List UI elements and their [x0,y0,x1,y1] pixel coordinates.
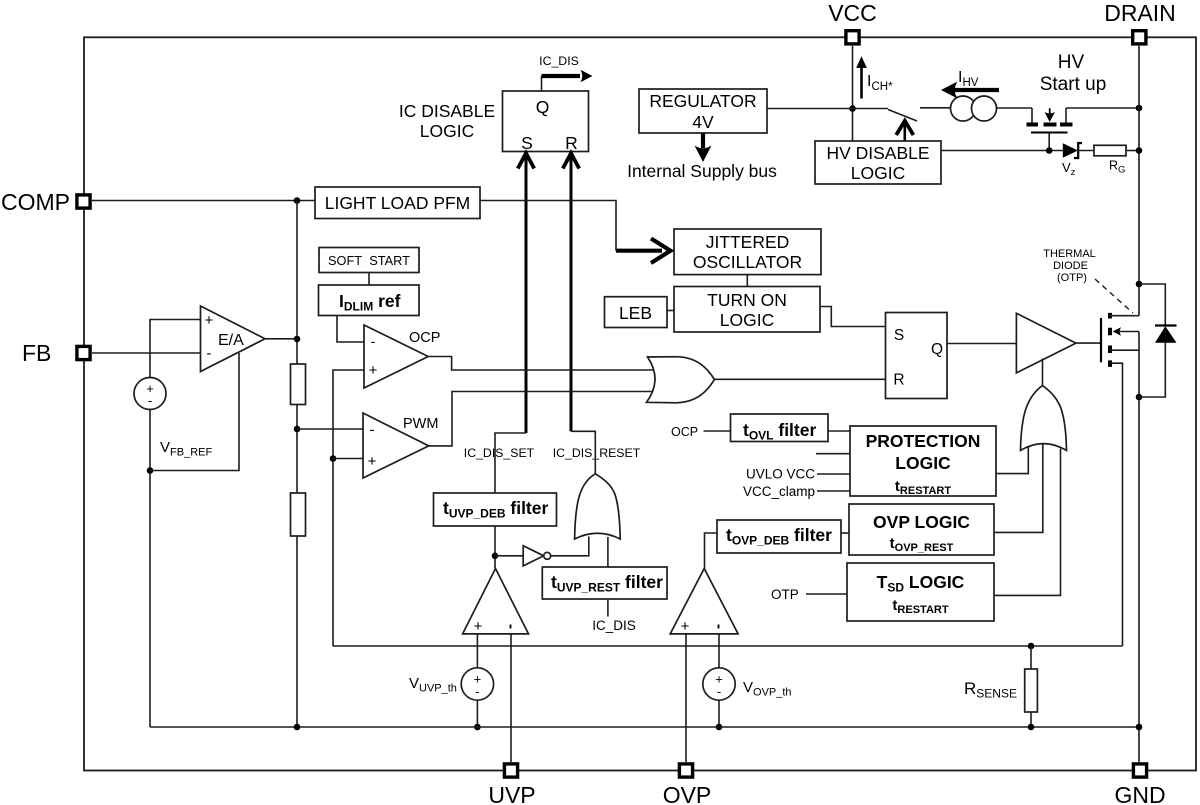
label HV Start up [1040,52,1107,95]
wire reset OR output [571,431,595,474]
svg-text:IC_DIS: IC_DIS [592,618,636,633]
wire OVP pin to comparator [685,634,687,762]
pin UVP [488,764,535,805]
block tUVP_REST filter [542,567,667,599]
arrow IC_DIS_SET (thick) [464,153,535,460]
svg-text:DIODE: DIODE [1053,260,1088,272]
node thermal diode top junction [1136,281,1143,288]
svg-text:IC DISABLE: IC DISABLE [399,101,495,121]
wire HV fet drain to DRAIN line [1066,107,1139,109]
svg-text:OVP: OVP [663,782,712,805]
svg-text:E/A: E/A [218,332,244,349]
wire regulator output to VCC node [767,108,853,110]
svg-text:OCP: OCP [409,330,440,346]
block SOFT START [319,248,419,273]
node PWM tap [294,426,301,433]
block OVP LOGIC [849,504,994,555]
block LEB [605,297,668,328]
driver buffer triangle [1016,313,1076,373]
svg-text:IC_DIS: IC_DIS [539,54,579,68]
block TURN ON LOGIC [674,287,820,333]
pin FB [22,340,90,366]
wire turn on logic to latch S [820,307,886,327]
svg-text:+: + [368,453,377,470]
svg-text:-: - [475,684,479,699]
wire OVP logic to OR [994,444,1043,532]
svg-text:DRAIN: DRAIN [1104,0,1176,26]
svg-text:S: S [521,133,533,153]
wire Q to IC_DIS arrow [539,54,592,91]
svg-text:+: + [369,362,378,379]
svg-text:Q: Q [536,97,550,117]
svg-text:LIGHT LOAD PFM: LIGHT LOAD PFM [325,193,471,213]
wire feedback loop to FB line [150,353,239,471]
svg-text:COMP: COMP [1,189,70,215]
wire HV disable logic to gate line [941,150,1064,152]
source VUVP_th [409,634,494,727]
wire ground rail [150,726,1139,728]
svg-text:S: S [894,327,904,344]
svg-text:-: - [717,684,721,699]
switch HV disable [853,108,951,121]
comparator UVP [463,569,529,636]
node feedback tap [147,467,154,474]
resistor divider upper [291,364,306,405]
wire PFM to oscillator [480,201,616,251]
node PWM noninverting tap [330,455,337,462]
wire TSD logic to OR [994,449,1061,596]
comparator OCP [364,325,440,388]
pin DRAIN [1104,0,1176,44]
comparator OVP [670,569,738,636]
node inverter tap [492,553,499,560]
wire E/A noninverting loop [150,320,201,379]
svg-text:UVP: UVP [488,782,535,805]
wire PWM output to OR [429,392,656,446]
source VFB_REF [134,378,212,459]
svg-text:LOGIC: LOGIC [720,310,774,330]
label OCP input [671,425,731,439]
wire divider vertical [296,201,298,365]
svg-text:-: - [370,422,375,439]
node mosfet source-body junction [1136,394,1143,401]
svg-text:OVP LOGIC: OVP LOGIC [873,512,970,532]
wire OCP noninverting to sense [333,370,364,646]
source VOVP_th [703,634,792,727]
pin VCC [828,0,877,44]
gate OR reset (up) [575,474,621,539]
node drain-hv junction [1136,105,1143,112]
arrow HV disable control [896,121,913,141]
svg-text:Q: Q [931,341,943,358]
svg-text:PROTECTION: PROTECTION [866,431,981,451]
wire tUVP_DEB to IC_DIS_SET [495,433,526,493]
node COMP divider tap [294,197,301,204]
wire idlim ref to OCP inverting [337,316,364,343]
label UVLO VCC input [746,467,850,482]
block TSD LOGIC [847,563,994,621]
svg-text:VCC: VCC [828,0,877,26]
svg-text:+: + [474,618,483,635]
wire driver to gate [1076,342,1101,344]
svg-text:LOGIC: LOGIC [420,121,474,141]
wire current source to HV fet [997,107,1033,109]
block JITTERED OSCILLATOR [674,229,821,275]
svg-text:HV: HV [1058,52,1085,73]
wire tUVP_REST top to OR [607,537,609,567]
pin COMP [1,189,90,215]
wire oscillator to turn on logic [746,275,748,287]
svg-text:VCC_clamp: VCC_clamp [743,484,815,499]
wire inverter to reset OR [551,537,589,556]
svg-text:LEB: LEB [619,303,652,323]
wire FB pin to E/A inverting input [92,352,201,354]
block PROTECTION LOGIC [850,426,996,497]
svg-text:TURN ON: TURN ON [707,290,787,310]
svg-text:OTP: OTP [771,587,799,602]
arrow IC_DIS_RESET (thick) [553,153,641,460]
svg-text:OCP: OCP [671,425,698,439]
wire OCP output to OR [428,357,656,371]
node RG-drain junction [1136,147,1143,154]
resistor RSENSE [964,646,1037,727]
label VCC_clamp input [743,484,850,499]
block tOVL filter [731,414,829,443]
svg-text:4V: 4V [692,112,714,132]
block LIGHT LOAD PFM [315,187,480,219]
resistor RG [1077,145,1139,175]
wire UVP pin to comparator [510,634,512,762]
svg-text:Start up: Start up [1040,74,1107,95]
svg-text:IC_DIS_RESET: IC_DIS_RESET [553,446,641,460]
node VCC-regulator junction [849,105,856,112]
wire OVP comparator to tOVP_DEB filter [705,533,718,569]
latch IC DISABLE (S/R/Q) [399,91,589,153]
comparator PWM [363,413,438,478]
svg-text:REGULATOR: REGULATOR [649,91,756,111]
wire VFB_REF bottom to ground rail [149,409,151,728]
svg-text:+: + [205,312,214,329]
node VUVP ground [474,724,481,731]
arrow to jittered oscillator (thick open head) [616,239,671,264]
svg-text:(OTP): (OTP) [1057,272,1087,284]
block tUVP_DEB filter [434,493,557,526]
svg-text:LOGIC: LOGIC [851,163,905,183]
svg-text:FB: FB [22,340,51,366]
node VOVP ground [716,724,723,731]
node divider ground [294,724,301,731]
wire DRAIN pin down to mosfet drain [1138,46,1140,316]
wire tOVL filter to protection logic [828,430,850,432]
wire VCC pin to HV disable node [852,46,854,141]
svg-text:IC_DIS_SET: IC_DIS_SET [464,446,535,460]
svg-text:-: - [207,345,212,362]
block tOVP_DEB filter [717,520,841,553]
svg-text:UVLO VCC: UVLO VCC [746,467,815,482]
block HV DISABLE LOGIC [815,141,941,184]
wire sense rail [333,645,1123,647]
svg-text:OSCILLATOR: OSCILLATOR [693,252,802,272]
block IDLIM ref [319,285,420,316]
svg-text:-: - [148,393,152,408]
label thermal diode [1043,248,1133,313]
arrow IHV [941,69,999,99]
latch main S/Q/R [886,313,948,399]
op-amp E/A error amplifier [201,306,266,372]
zener diode Vz [1062,143,1082,178]
gate OR protection (up) [1021,359,1067,451]
wire OR output to latch R [715,378,886,380]
svg-text:+: + [681,618,690,635]
resistor divider lower [291,493,306,536]
wire latch Q to driver [947,343,1016,345]
wire unlabeled input [816,453,850,455]
transistor main power MOSFET [1101,313,1139,762]
arrow ICH* charging current [856,56,893,98]
wire to PWM noninverting [333,458,363,460]
svg-text:JITTERED: JITTERED [706,232,790,252]
current source IHV [951,96,997,121]
arrow internal supply bus [627,133,777,181]
pin OVP [663,764,712,805]
wire tOVP_DEB filter to OVP logic [841,532,849,534]
svg-text:GND: GND [1114,782,1165,805]
wire soft start to idlim [368,273,370,286]
wire LEB to turn on logic [667,310,674,312]
regulator U REGULATOR 4V [639,89,767,133]
node rsense bottom [1028,724,1035,731]
svg-text:Internal Supply bus: Internal Supply bus [627,161,777,181]
diode thermal OTP [1139,284,1177,397]
inverter NOT gate [495,546,551,566]
wire COMP to PFM [92,200,315,202]
svg-text:SOFT START: SOFT START [328,253,410,268]
wire divider bottom to ground rail [296,536,298,727]
svg-text:-: - [371,334,376,351]
svg-text:HV DISABLE: HV DISABLE [826,143,929,163]
node E/A output junction [294,336,301,343]
svg-text:R: R [565,133,578,153]
wire divider to PWM inverting [297,428,363,430]
wire protection logic to OR [996,447,1028,474]
wire IC_DIS to tUVP_REST [592,599,636,633]
transistor HV startup FET [1027,108,1073,151]
svg-text:THERMAL: THERMAL [1043,248,1096,260]
svg-text:PWM: PWM [403,416,438,432]
node gnd riser [1136,724,1143,731]
svg-text:R: R [893,372,904,389]
node rsense top [1028,643,1035,650]
wire UVP comparator output up [494,493,496,569]
wire E/A output [265,338,297,340]
pin GND [1114,764,1165,805]
wire divider middle [296,405,298,494]
svg-text:LOGIC: LOGIC [895,453,951,473]
node gate tap [1046,147,1053,154]
gate OR main [647,357,715,403]
label OTP input [771,587,847,602]
